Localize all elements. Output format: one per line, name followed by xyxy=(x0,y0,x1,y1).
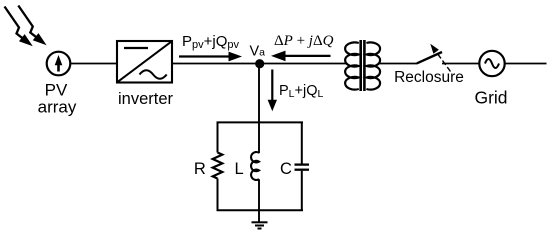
wire inverter to node Va xyxy=(172,63,260,65)
load box top bus xyxy=(217,121,304,123)
node Va xyxy=(255,59,264,68)
wire transformer to reclosure xyxy=(379,63,418,65)
reclosure switch xyxy=(417,44,451,72)
svg-text:ΔP + jΔQ: ΔP + jΔQ xyxy=(274,33,334,49)
label PV array xyxy=(38,80,77,116)
svg-text:R: R xyxy=(194,160,206,178)
arrow PL power flow (downward) xyxy=(268,70,277,112)
svg-text:PV: PV xyxy=(45,80,68,99)
inverter U1 xyxy=(117,41,172,83)
wire PV to inverter xyxy=(70,63,117,65)
grid source xyxy=(479,51,504,76)
wire grid to right edge xyxy=(505,63,547,65)
arrow deltaP power flow (leftward) xyxy=(271,51,331,62)
arrow Ppv power flow xyxy=(179,52,242,62)
svg-text:PL+jQL: PL+jQL xyxy=(279,83,323,100)
wire node Va down to load xyxy=(258,64,260,154)
ground xyxy=(252,222,268,228)
inductor L branch xyxy=(251,152,259,222)
capacitor C branch xyxy=(295,122,310,212)
svg-text:L: L xyxy=(235,160,244,178)
svg-text:Va: Va xyxy=(250,44,266,60)
svg-text:C: C xyxy=(280,160,292,178)
wire node to transformer xyxy=(260,63,348,65)
transformer T1 xyxy=(345,40,380,91)
PV array current source xyxy=(47,52,71,76)
sun ray arrow 2 xyxy=(18,6,46,46)
svg-text:Grid: Grid xyxy=(474,88,507,108)
svg-text:Reclosure: Reclosure xyxy=(394,69,464,86)
svg-text:inverter: inverter xyxy=(118,90,174,108)
wire reclosure to grid xyxy=(442,63,479,65)
resistor R branch xyxy=(213,122,223,212)
sun ray arrow 1 xyxy=(5,7,33,47)
svg-text:array: array xyxy=(38,98,77,117)
load box bottom bus xyxy=(217,209,304,211)
